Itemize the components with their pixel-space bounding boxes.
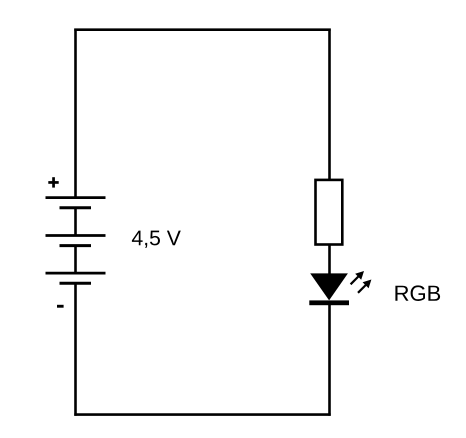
wire battery cell1-cell2 link bbox=[74, 208, 77, 236]
wire resistor to LED bbox=[328, 245, 331, 276]
LED D1 anode triangle bbox=[310, 273, 348, 300]
battery positive terminal + sign bbox=[48, 177, 58, 187]
battery negative terminal - sign bbox=[57, 305, 64, 308]
wire battery cell2-cell3 link bbox=[74, 246, 77, 274]
battery BT1 cell 1 positive plate bbox=[46, 196, 106, 199]
wire right upper (to resistor) bbox=[328, 29, 331, 181]
LED label RGB bbox=[395, 285, 440, 301]
battery BT1 cell 2 positive plate bbox=[46, 234, 106, 237]
wire left upper (battery positive lead) bbox=[74, 29, 77, 198]
LED D1 emission arrow 2 shaft bbox=[358, 284, 366, 292]
battery value label 4,5 V bbox=[132, 231, 181, 248]
LED D1 emission arrow 2 head bbox=[363, 280, 372, 289]
LED D1 emission arrow 1 head bbox=[355, 271, 364, 280]
wire top (node + rail) bbox=[74, 28, 330, 31]
wire bottom return bbox=[74, 413, 330, 416]
battery BT1 cell 1 negative plate bbox=[60, 206, 92, 209]
battery BT1 cell 2 negative plate bbox=[60, 244, 92, 247]
resistor R1 body bbox=[316, 180, 343, 245]
wire right lower (LED cathode lead) bbox=[328, 303, 331, 416]
LED D1 emission arrow 1 shaft bbox=[351, 276, 359, 284]
LED D1 cathode bar bbox=[309, 300, 349, 305]
battery BT1 cell 3 positive plate bbox=[46, 272, 106, 275]
wire left lower (battery negative lead) bbox=[74, 283, 77, 416]
battery BT1 cell 3 negative plate bbox=[60, 282, 92, 285]
